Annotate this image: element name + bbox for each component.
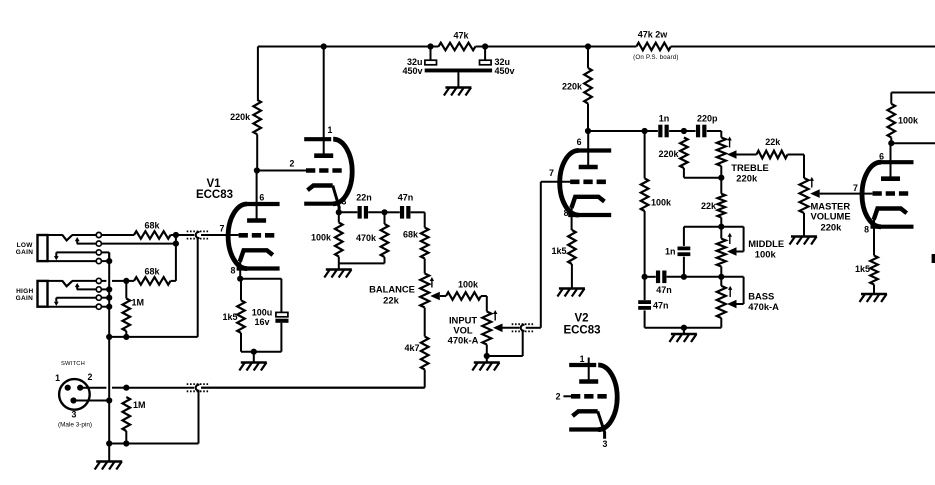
pin 8 label V3: [864, 225, 869, 235]
svg-text:V2: V2: [574, 313, 588, 325]
resistor 470k: [356, 212, 388, 263]
svg-text:1k5: 1k5: [551, 246, 566, 256]
svg-text:100k: 100k: [458, 280, 479, 290]
wire 68k bypass vertical: [175, 235, 177, 281]
svg-text:450v: 450v: [495, 66, 515, 76]
svg-text:220k: 220k: [736, 173, 758, 184]
wire V3 plate output: [891, 142, 935, 144]
node jack2 row4 bus: [106, 304, 112, 310]
ground V1a cathode: [239, 363, 266, 371]
pin 1 label V2b: [580, 354, 585, 364]
svg-text:47k 2w: 47k 2w: [638, 30, 669, 40]
capacitor 47n (bass series): [656, 271, 672, 296]
resistor 1M (high gain grid leak): [123, 281, 145, 337]
node bus tee 2: [106, 440, 112, 446]
wire switch pin2 out: [80, 387, 126, 389]
node row2 junction: [173, 241, 179, 247]
wire switch pin3 to bus: [74, 400, 110, 402]
wire jack2 row3: [56, 297, 109, 299]
svg-text:1n: 1n: [665, 247, 676, 257]
wire V1b grid direct coupling: [257, 170, 308, 172]
svg-text:7: 7: [549, 168, 554, 178]
svg-text:GAIN: GAIN: [16, 249, 33, 256]
wire V1a plate to pin 6: [256, 171, 258, 221]
wire 220p to treble pot: [707, 131, 722, 138]
label V1 ECC83: [196, 178, 233, 201]
svg-text:22k: 22k: [765, 137, 781, 147]
wire B+ rail: [258, 47, 935, 100]
svg-text:7: 7: [220, 223, 225, 233]
wire jack2 row2: [77, 288, 109, 290]
wire V1a cathode pin 8: [239, 258, 241, 279]
wire 22n to 470k node: [368, 211, 384, 213]
arrow jack1 shorting contact: [54, 252, 59, 260]
wire input bus to shield drain: [109, 336, 198, 338]
resistor 220k (V1a plate load): [230, 100, 261, 171]
wire 100k/470k bottom: [339, 263, 385, 269]
node rail to V1b plate (junction): [321, 43, 327, 49]
resistor 47k (P.S. smoothing): [439, 31, 476, 51]
resistor 100k (V1b cathode load): [311, 212, 343, 263]
pin 2 label V2b: [556, 392, 561, 402]
pin 2 stub V2b: [563, 395, 571, 397]
resistor 220k (tone bypass): [658, 138, 687, 178]
wire 220k bottom to treble wiper node: [684, 177, 721, 179]
contact jack1 row4: [96, 259, 101, 264]
svg-text:HIGH: HIGH: [16, 288, 33, 295]
wiper MIDDLE: [721, 227, 743, 256]
tube V1 triode b (pins 1,2,3): [304, 139, 352, 204]
wire 32u common plate: [425, 69, 492, 88]
ground V2a cathode: [557, 289, 585, 297]
wire balance bottom return: [201, 387, 424, 389]
svg-text:BALANCE: BALANCE: [369, 284, 415, 295]
tube V2 triode b unused (pins 1,2,3): [569, 365, 617, 430]
jack LOW GAIN body: [16, 235, 80, 262]
potentiometer INPUT VOL 470k-A: [448, 312, 492, 357]
wire 47n to bass node: [667, 276, 722, 278]
svg-text:1M: 1M: [132, 297, 145, 307]
svg-text:470k-A: 470k-A: [448, 334, 479, 345]
mark right edge cut label: [932, 254, 935, 263]
node rail 47k left: [427, 43, 433, 49]
node 1M2 top: [123, 385, 129, 391]
capacitor 100u 16v (V1a cathode bypass): [252, 307, 289, 351]
wire middle top left branch: [684, 227, 721, 246]
pin 8 label V1a: [231, 266, 236, 276]
wiper BASS: [721, 277, 743, 309]
node middle/bass junction: [718, 274, 724, 280]
arrow balance direction: [430, 277, 434, 288]
pin 7 label V3: [853, 183, 858, 193]
node middle top: [718, 224, 724, 230]
svg-text:8: 8: [864, 225, 869, 235]
node 1n bottom tee: [681, 274, 687, 280]
capacitor 220p: [684, 114, 718, 138]
node rail 47k right: [482, 43, 488, 49]
contact jack1 row3: [96, 250, 101, 255]
svg-text:6: 6: [259, 192, 264, 202]
shielded wire input vol to V2 grid: [512, 324, 541, 356]
svg-text:470k-A: 470k-A: [748, 301, 779, 312]
label V2 ECC83: [563, 313, 600, 337]
potentiometer MASTER VOLUME 220k: [800, 178, 851, 237]
pin 1 label V1b: [328, 125, 333, 135]
wire jack1 row3: [56, 252, 109, 261]
resistor 220k (V2 plate load): [562, 47, 592, 132]
resistor 100k (tone slope): [641, 131, 672, 277]
node jack2 tip to 1M: [123, 278, 129, 284]
wire switch ground bus: [109, 443, 198, 445]
svg-text:68k: 68k: [144, 220, 160, 230]
wire V3 supply stub: [891, 93, 935, 104]
wiper BALANCE: [430, 292, 446, 301]
node pin3 bus: [106, 397, 112, 403]
wire jack1 row4: [48, 260, 110, 262]
contact jack1 row2: [96, 241, 101, 246]
arrow treble direction: [727, 137, 731, 148]
contact jack2 tip: [96, 278, 101, 283]
node treble bottom tap: [718, 175, 724, 181]
wire V2 grid feed: [541, 182, 571, 328]
resistor 1k5 (V2a cathode): [551, 230, 575, 289]
tube V1 triode a (pins 6,7,8): [228, 204, 280, 269]
ground 32u caps: [444, 88, 472, 96]
arrow jack2 shorting contact: [54, 298, 59, 306]
ground MASTER VOLUME: [790, 237, 818, 245]
node jack1 row4 bus: [106, 258, 112, 264]
tube V2 triode a (pins 6,7,8): [560, 151, 612, 216]
svg-text:100k: 100k: [651, 198, 672, 208]
svg-text:1: 1: [55, 373, 60, 383]
wire V2b cathode to pin 3: [598, 411, 605, 439]
node bus tee 1: [106, 334, 112, 340]
wire jack2 row4: [48, 306, 110, 308]
svg-text:1n: 1n: [659, 114, 670, 124]
resistor 68k (balance feed): [403, 228, 429, 274]
wire jack1 row2: [77, 243, 176, 245]
svg-text:1k5: 1k5: [855, 264, 870, 274]
resistor 100k (balance to input vol): [446, 280, 487, 312]
capacitor 47n (coupling): [385, 192, 414, 218]
wire jack2 tip row: [72, 280, 126, 282]
pin 1 switch: [55, 373, 71, 391]
wiper TREBLE: [727, 150, 757, 159]
wire V1b cathode to pin 3: [333, 186, 340, 213]
node 1n/220p junction: [681, 128, 687, 134]
svg-text:6: 6: [577, 137, 582, 147]
svg-text:3: 3: [603, 439, 608, 449]
node tone stack input: [642, 128, 648, 134]
svg-text:7: 7: [853, 183, 858, 193]
svg-text:GAIN: GAIN: [16, 295, 33, 302]
svg-text:100u: 100u: [252, 307, 273, 317]
pin 3 label V2b: [603, 439, 608, 449]
arrow master volume direction: [810, 177, 814, 188]
wire 47n to 68k: [411, 212, 425, 227]
jack HIGH GAIN body: [16, 280, 80, 306]
ground tone stack: [669, 334, 697, 342]
wiper MASTER VOLUME: [810, 189, 872, 198]
potentiometer MIDDLE 100k: [717, 227, 784, 277]
wire 1n middle bottom: [683, 257, 685, 277]
resistor 47k 2w (on P.S. board): [633, 30, 679, 62]
svg-text:1: 1: [580, 354, 585, 364]
arrow middle direction: [728, 233, 732, 244]
svg-text:4k7: 4k7: [404, 343, 419, 353]
svg-text:68k: 68k: [403, 230, 419, 240]
svg-text:470k: 470k: [356, 233, 377, 243]
wire node to 1n: [645, 130, 658, 132]
wire V2a cathode pin 8: [571, 207, 573, 231]
svg-text:1M: 1M: [133, 400, 146, 410]
contact jack2 row2: [96, 287, 101, 292]
svg-text:ECC83: ECC83: [563, 325, 600, 337]
capacitor 1n (treble): [659, 114, 670, 138]
wire cathode node to cap branch: [240, 279, 281, 313]
svg-text:(Male 3-pin): (Male 3-pin): [58, 422, 92, 429]
pin 3 label V1b: [342, 197, 347, 207]
svg-text:2: 2: [290, 159, 295, 169]
node jack2 row3 bus: [106, 295, 112, 301]
wire 1n to junction: [669, 130, 684, 132]
node V2 plate junction: [585, 128, 591, 134]
node V1a cathode junction: [237, 276, 243, 282]
node input vol bottom: [484, 353, 523, 363]
resistor 4k7: [404, 337, 428, 388]
wire V1a cathode bottom: [241, 351, 281, 353]
node 1M2 bottom: [123, 440, 129, 446]
pin 3 switch: [70, 397, 76, 419]
svg-text:22k: 22k: [701, 201, 717, 211]
wire tone mid rail: [645, 276, 656, 278]
potentiometer BASS 470k-A: [717, 277, 779, 328]
svg-text:SWITCH: SWITCH: [61, 361, 85, 367]
node rail to 220k V2: [585, 43, 591, 49]
svg-text:3: 3: [72, 410, 77, 420]
node 68k output: [173, 232, 179, 238]
pin 6 label V1a: [259, 192, 264, 202]
svg-text:22n: 22n: [356, 192, 372, 202]
svg-text:22k: 22k: [383, 295, 399, 306]
wire tone stack bottom: [645, 327, 722, 329]
resistor 68k (high gain input): [134, 220, 176, 239]
svg-text:8: 8: [231, 266, 236, 276]
potentiometer BALANCE 22k: [369, 274, 429, 337]
wire input bus vertical: [108, 252, 110, 461]
node 47n left tee: [642, 274, 648, 280]
resistor 100k (V3 plate load): [888, 104, 920, 143]
pin 2 label V1b: [290, 159, 295, 169]
contact jack2 row4: [96, 304, 101, 309]
resistor 1k5 (V3 cathode): [855, 256, 878, 295]
arrow bass direction: [728, 286, 732, 297]
wire jack1 tip row: [72, 234, 134, 236]
svg-text:47n: 47n: [653, 301, 669, 311]
potentiometer TREBLE 220k: [717, 138, 769, 194]
node V3 plate junction: [888, 140, 894, 146]
capacitor 1n (middle): [665, 247, 690, 257]
ground 100k/470k: [324, 270, 352, 278]
svg-text:220k: 220k: [658, 149, 679, 159]
svg-text:450v: 450v: [402, 66, 422, 76]
resistor 1M (switch grid leak): [123, 397, 146, 444]
resistor 68k (low gain input): [126, 267, 176, 285]
resistor 22k (to master volume): [757, 137, 805, 178]
connector SWITCH (male 3-pin): [58, 361, 92, 429]
pin 2 switch: [77, 372, 92, 391]
resistor 22k (treble to middle): [701, 194, 725, 227]
capacitor 32u 450v (right): [480, 47, 515, 77]
contact jack1 tip: [96, 232, 101, 237]
wire V3 plate to pin 6: [890, 143, 892, 179]
capacitor 32u 450v (left): [402, 47, 436, 77]
tube V3 triode (pins 6,7,8): [862, 162, 914, 227]
pin 7 label V1a: [220, 223, 225, 233]
svg-text:1k5: 1k5: [222, 312, 237, 322]
svg-text:ECC83: ECC83: [196, 189, 233, 201]
node 1M bottom: [123, 334, 129, 340]
wiper INPUT VOL: [493, 324, 520, 333]
contact jack2 row3: [96, 295, 101, 300]
wire V2 plate to pin 6: [587, 131, 589, 167]
svg-text:100k: 100k: [755, 248, 777, 259]
node tone ground tee: [681, 325, 687, 334]
node V1b cathode output: [336, 209, 342, 215]
ground V3 cathode: [860, 294, 888, 302]
svg-text:3: 3: [342, 197, 347, 207]
svg-text:47k: 47k: [453, 31, 469, 41]
svg-text:8: 8: [564, 208, 569, 218]
svg-text:LOW: LOW: [17, 242, 34, 249]
svg-text:16v: 16v: [254, 317, 269, 327]
svg-text:2: 2: [88, 372, 93, 382]
wire V3 cathode pin 8: [873, 216, 875, 255]
svg-text:6: 6: [879, 152, 884, 162]
arrow input vol direction: [493, 310, 497, 321]
svg-text:47n: 47n: [656, 285, 672, 295]
svg-text:(On P.S. board): (On P.S. board): [633, 54, 679, 61]
svg-text:1: 1: [328, 125, 333, 135]
svg-text:47n: 47n: [398, 192, 414, 202]
resistor 1k5 (V1a cathode): [222, 279, 244, 352]
svg-text:220p: 220p: [697, 114, 718, 124]
pin 6 label V3: [879, 152, 884, 162]
node 22n/47n junction: [381, 209, 387, 215]
svg-text:220k: 220k: [562, 82, 583, 92]
svg-text:220k: 220k: [230, 112, 251, 122]
svg-text:VOLUME: VOLUME: [811, 211, 851, 222]
wire V1b plate pin 1 to rail: [323, 47, 325, 156]
svg-text:220k: 220k: [821, 221, 843, 232]
ground INPUT VOL: [472, 363, 500, 371]
node jack2 row2 bus: [106, 286, 112, 292]
wire V2 plate to tone stack: [588, 130, 645, 132]
pin 1 stub V2b: [588, 358, 590, 382]
svg-text:2: 2: [556, 392, 561, 402]
pin 7 label V2a: [549, 168, 554, 178]
ground input bus: [95, 462, 123, 470]
pin 6 label V2a: [577, 137, 582, 147]
svg-text:100k: 100k: [311, 233, 332, 243]
wire pin3 node to 22n: [339, 211, 358, 213]
capacitor 22n: [356, 192, 372, 218]
svg-text:68k: 68k: [144, 267, 160, 277]
svg-text:100k: 100k: [898, 116, 919, 126]
pin 8 label V2a: [564, 208, 569, 218]
shielded wire to V1a grid: [176, 231, 239, 337]
node cathode ground tee: [251, 349, 257, 363]
shielded wire switch to balance: [126, 384, 424, 443]
node V1a plate / V1b grid junction: [254, 167, 260, 173]
capacitor 47n (bass shunt): [638, 277, 668, 328]
